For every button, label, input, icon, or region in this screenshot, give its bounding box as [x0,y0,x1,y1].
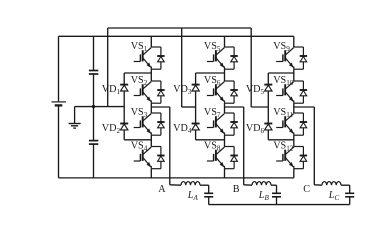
wire cap A top lead [208,185,210,193]
svg-text:A: A [158,184,166,195]
wire leg3 clamp col lower [267,130,269,140]
wire A to inductor [170,184,181,186]
wire leg1 clamp col upper [123,73,125,85]
wire leg3 collector drop [293,36,295,47]
svg-text:VS9: VS9 [273,41,290,53]
wire phase A tap horizontal [151,106,170,108]
svg-text:VD5: VD5 [246,84,265,96]
capacitor Cd1 [89,70,98,72]
wire neutral top bus [108,27,252,29]
wire leg1 VS link1 [150,69,152,81]
wire leg1 VS link2 [150,103,152,113]
svg-text:LA: LA [187,190,199,202]
wire leg3 clamp top link [268,72,294,74]
wire cap B bottom lead [276,197,278,205]
transistor VS12 [276,147,307,169]
wire capacitor rail lower [93,145,95,178]
transistor VS3 [134,113,165,135]
wire phase C tap horizontal [294,106,315,108]
svg-text:VS3: VS3 [131,107,148,119]
transistor VS8 [207,147,238,169]
capacitor CfA [204,192,213,194]
wire cap B top lead [276,185,278,193]
wire phase B tap vertical [243,107,245,185]
wire output common bus [209,204,350,206]
svg-text:VD3: VD3 [173,84,192,96]
wire leg3 VS link2 [293,103,295,113]
svg-text:LB: LB [258,190,270,202]
wire DC+ bus [59,35,294,37]
diode VD4 [192,124,200,130]
transistor VS4 [134,147,165,169]
inductor LA [181,182,200,186]
capacitor Cd2 [89,140,98,142]
wire battery bottom lead [58,106,60,178]
wire leg1 clamp top link [124,72,151,74]
wire neutral riser [107,28,109,107]
transistor VS1 [134,47,165,69]
wire leg2 clamp top link [196,72,225,74]
wire leg2 clamp col lower [195,130,197,140]
wire neutral to leg1 clamp [75,106,125,108]
diode VD2 [120,124,128,130]
wire ground stem [74,107,76,124]
wire leg3 neutral feed [251,106,268,108]
wire leg3 clamp col upper [267,73,269,85]
wire leg2 to DC- bus [224,169,226,178]
wire leg3 VS link3 [293,135,295,146]
wire leg3 to DC- bus [293,169,295,178]
wire leg1 clamp col middle [123,91,125,123]
svg-text:VS10: VS10 [273,75,294,87]
svg-text:VD2: VD2 [102,123,121,135]
transistor VS9 [276,47,307,69]
diode VD5 [264,85,272,91]
wire leg3 clamp col middle [267,91,269,123]
svg-text:VS7: VS7 [204,107,221,119]
wire leg2 VS link3 [224,135,226,146]
wire leg2 neutral drop [181,28,183,107]
wire phase C tap vertical [313,107,315,185]
svg-text:VS6: VS6 [204,75,221,87]
svg-text:VS1: VS1 [131,41,148,53]
diode VD6 [264,124,272,130]
transistor VS2 [134,81,165,103]
wire cap A bottom lead [208,197,210,205]
wire leg2 clamp col middle [195,91,197,123]
svg-text:VS5: VS5 [204,41,221,53]
wire leg2 neutral feed [182,106,196,108]
transistor VS6 [207,81,238,103]
wire inductor to cap A [200,184,209,186]
diode VD1 [120,85,128,91]
wire leg2 clamp col upper [195,73,197,85]
svg-text:VS12: VS12 [273,140,294,152]
wire leg2 collector drop [224,36,226,47]
ground [69,123,81,125]
wire leg3 clamp bottom link [268,139,294,141]
wire leg3 VS link1 [293,69,295,81]
svg-text:VS8: VS8 [204,140,221,152]
svg-text:VD6: VD6 [246,123,265,135]
wire leg1 VS link3 [150,135,152,146]
wire battery top lead [58,36,60,101]
wire C to inductor [314,184,322,186]
capacitor CfC [345,192,354,194]
wire phase A tap vertical [169,107,171,185]
svg-text:VS2: VS2 [131,75,148,87]
wire B to inductor [244,184,252,186]
wire cap C bottom lead [349,197,351,205]
wire leg2 VS link2 [224,103,226,113]
inductor LB [252,182,271,186]
diode VD3 [192,85,200,91]
svg-text:LC: LC [328,190,340,202]
transistor VS11 [276,113,307,135]
svg-text:VS4: VS4 [131,140,148,152]
wire inductor to cap C [341,184,350,186]
wire leg3 neutral drop [250,28,252,107]
node O (capacitor midpoint junction) [92,105,95,108]
svg-text:B: B [233,184,240,195]
transistor VS10 [276,81,307,103]
battery E (DC source) [52,101,66,103]
transistor VS5 [207,47,238,69]
wire inductor to cap B [271,184,277,186]
wire leg1 clamp col lower [123,130,125,140]
capacitor CfB [272,192,281,194]
svg-text:VD4: VD4 [173,123,192,135]
wire leg2 clamp bottom link [196,139,225,141]
svg-text:VS11: VS11 [273,107,293,119]
wire leg2 VS link1 [224,69,226,81]
wire DC- bus [59,177,294,179]
wire capacitor rail middle [93,75,95,141]
inductor LC [322,182,341,186]
transistor VS7 [207,113,238,135]
wire leg1 collector drop [150,36,152,47]
wire leg1 to DC- bus [150,169,152,178]
wire leg1 clamp bottom link [124,139,151,141]
wire capacitor rail upper [93,36,95,70]
svg-text:C: C [303,184,310,195]
svg-text:VD1: VD1 [102,84,121,96]
wire cap C top lead [349,185,351,193]
wire phase B tap horizontal [225,106,244,108]
